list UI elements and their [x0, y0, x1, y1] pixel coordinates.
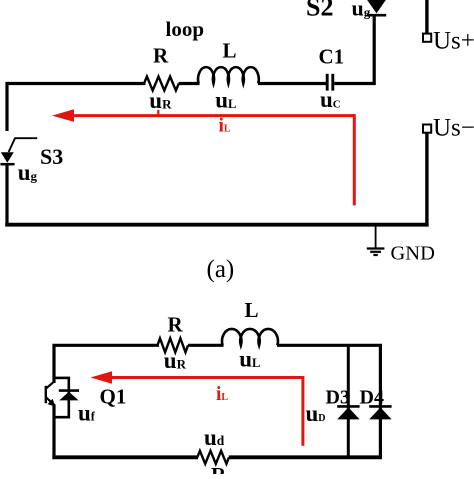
svg-text:Us+: Us+ [433, 28, 474, 55]
wire L to right corner and D4 branch [277, 345, 380, 457]
ground [367, 226, 385, 255]
resistor R bottom (b) [197, 451, 229, 464]
diode D3 [337, 406, 359, 419]
svg-text:C1: C1 [319, 45, 345, 69]
resistor R (a) [144, 77, 179, 91]
terminal Us+ [423, 34, 431, 42]
wire C1 up to S2 [334, 14, 374, 84]
wire S3 lower lead [5, 163, 8, 226]
wire R to L (a) [179, 82, 200, 85]
svg-text:loop: loop [166, 17, 205, 41]
inductor L (a) [198, 67, 259, 83]
svg-text:S2: S2 [306, 0, 333, 22]
wire L to C1 (a) [258, 82, 326, 85]
svg-text:Us−: Us− [433, 115, 474, 142]
wire bottom rail (a) [5, 223, 428, 227]
diode S2 [367, 0, 386, 15]
current arrow iL (b) [91, 371, 303, 446]
svg-text:L: L [245, 298, 259, 322]
svg-text:R: R [168, 313, 184, 337]
svg-text:R: R [211, 463, 227, 474]
thyristor S3 [0, 138, 37, 164]
svg-text:S3: S3 [40, 144, 63, 169]
diode D4 [369, 406, 391, 419]
wire top-left corner (b) [54, 345, 159, 383]
svg-text:(a): (a) [207, 256, 235, 283]
svg-text:L: L [223, 39, 237, 63]
wire bottom rail right part (b) [229, 455, 382, 459]
wire D3 branch [347, 345, 350, 457]
inductor L (b) [222, 329, 278, 345]
wire left side lower (b) [52, 405, 55, 460]
wire Us- lead [425, 134, 428, 227]
capacitor C1 [327, 74, 333, 91]
wire top-left corner of loop (a) [7, 84, 146, 132]
polarity tick under uR (a) [157, 110, 159, 115]
terminal Us- [423, 125, 431, 133]
wire bottom rail left part (b) [52, 455, 198, 459]
current arrow iL (a) [52, 109, 354, 205]
wire Us+ lead [425, 0, 428, 33]
wire R to L (b) [188, 344, 224, 347]
svg-text:GND: GND [391, 243, 435, 265]
svg-text:D3: D3 [326, 387, 350, 409]
svg-text:D4: D4 [360, 387, 384, 409]
svg-text:Q1: Q1 [100, 385, 127, 409]
svg-text:R: R [153, 44, 169, 68]
resistor R (b) [158, 338, 189, 352]
transistor Q1 (IGBT with antiparallel diode) [46, 377, 79, 418]
